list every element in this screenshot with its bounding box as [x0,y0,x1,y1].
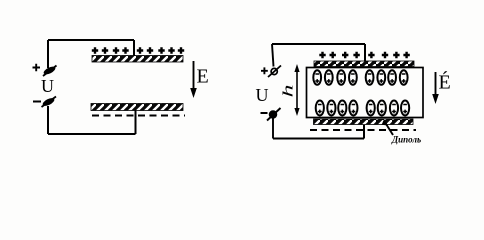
plate gap dimension h: double arrow [294,64,299,116]
wire: left rail upper segment [47,40,49,68]
label Диполь [391,135,421,145]
dielectric slab outline [307,68,424,118]
field vector E arrow (left diagram) [190,61,197,98]
wire: lower stub from - terminal [272,119,274,139]
wire: drop from top wire to top plate (right) [364,44,366,62]
field label É (right diagram) [439,71,451,94]
terminal (-) of source U: filled circle with slash [267,108,281,121]
battery terminal mark (-) of source U [41,97,56,108]
svg-text:U: U [256,85,269,105]
svg-text:h: h [279,84,295,97]
wire: right loop bottom horizontal [273,138,364,140]
plus polarity label (right U) [261,67,268,74]
terminal (+) of source U: circle with slash [268,66,281,78]
capacitor top plate (right diagram, hatched) [314,61,414,67]
wire: left rail lower segment [47,106,49,134]
minus polarity label (right U) [261,112,268,114]
wire: drop from top wire to top plate [133,40,135,56]
capacitor bottom plate (right diagram, hatched) [314,119,414,125]
field label E (left diagram) [197,66,209,88]
wire: left loop bottom horizontal [48,133,136,135]
positive charge row on top plate (9 plus signs) [92,47,184,53]
wire: upper stub to + terminal [272,44,274,67]
plus polarity label of U [33,64,41,71]
negative charge dashed line under bottom plate (right) [310,129,416,131]
negative charge dashed line under bottom plate [92,115,185,117]
wire: left loop top horizontal [48,39,134,41]
positive charge row on top plate (8 plus signs) [319,52,410,58]
wire: right loop top horizontal [272,43,365,45]
minus polarity label of U [33,101,41,103]
value label U (right) [256,85,269,105]
battery terminal mark (+) of source U [42,65,56,76]
svg-text:É: É [439,71,451,94]
top row of dipoles (8 ellipses, minus up / plus down) [313,70,407,84]
bottom row of dipoles (8 ellipses, minus up / plus down) [316,101,410,116]
wire: rise from bottom wire to bottom plate [135,110,137,134]
capacitor top plate (left diagram, hatched) [92,56,183,63]
svg-text:U: U [41,76,54,96]
svg-text:E: E [197,66,209,88]
capacitor bottom plate (left diagram, hatched) [91,104,183,111]
wire: rise from bottom wire to bottom plate (right) [363,125,365,139]
pointer line to dipole label [382,120,393,135]
field vector E arrow (right diagram) [432,72,439,104]
dimension label h (rotated italic) [279,84,295,97]
value label U [41,76,54,96]
svg-text:Диполь: Диполь [391,135,421,145]
